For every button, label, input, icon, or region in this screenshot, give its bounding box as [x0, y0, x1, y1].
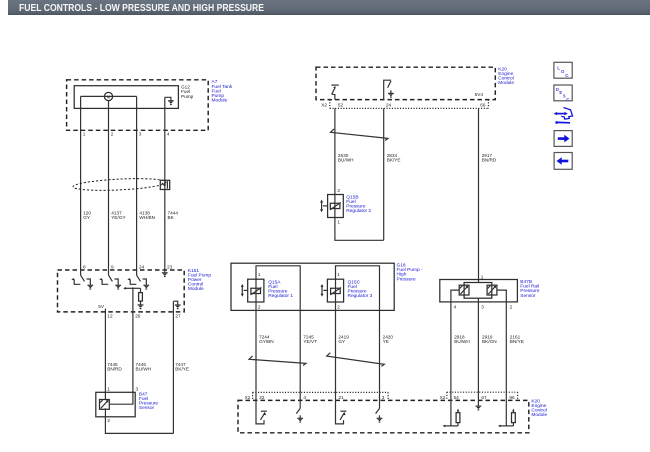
svg-text:BU/WH: BU/WH [454, 339, 470, 344]
svg-text:Regulator 2: Regulator 2 [346, 208, 371, 214]
svg-text:X2: X2 [440, 395, 446, 400]
svg-text:Pump: Pump [181, 94, 194, 99]
wire 120 GY [80, 96, 82, 270]
svg-text:BN/YE: BN/YE [510, 339, 524, 344]
header bar [8, 0, 650, 15]
ground (below resistor) [140, 301, 142, 305]
fuel pump power control module K151 dashed box [58, 270, 185, 312]
ground (inside fuel pump module) [165, 97, 171, 101]
solenoid Q15C [330, 288, 341, 295]
wire 4138 WH/BN [136, 96, 138, 270]
sensor element (left) [459, 285, 469, 295]
ground driver pin 3 [376, 400, 383, 422]
svg-text:26: 26 [135, 313, 141, 318]
svg-text:5V: 5V [98, 304, 105, 309]
svg-text:67: 67 [481, 395, 487, 400]
ground pin 23 [164, 270, 166, 273]
svg-text:YE: YE [383, 339, 389, 344]
svg-text:1: 1 [337, 219, 340, 224]
fuel rail pressure sensor B47B box [440, 280, 518, 302]
wire 3074 BK/YE [383, 108, 385, 240]
svg-text:YE/VT: YE/VT [303, 339, 317, 344]
svg-text:9: 9 [111, 264, 114, 269]
motor M fuel pump [104, 92, 112, 100]
ground driver pin 24 [384, 80, 391, 99]
svg-text:3: 3 [481, 304, 484, 309]
svg-text:2: 2 [337, 188, 340, 193]
wire pin 27 / 7447 BK/YE [172, 301, 174, 433]
driver (low-side) pin 24 [127, 270, 149, 289]
driver (low-side) pin 8 [71, 270, 93, 289]
svg-text:24: 24 [139, 264, 145, 269]
icon jump/goto glyph [554, 108, 573, 124]
solenoid Q15B [330, 203, 341, 210]
driver (high-side) pin 52 [332, 94, 335, 99]
twisted pair marker (7244/7245) [249, 356, 306, 366]
svg-text:GY/BN: GY/BN [259, 339, 274, 344]
driver (high-side) pin 22 [256, 400, 267, 424]
ground pin 67 [477, 392, 479, 406]
sense resistor pin 96 [498, 409, 515, 428]
icon LOC button [554, 62, 572, 78]
wire pin 12 / 7445 BN/RD to B47 pin 1 [104, 309, 106, 399]
wire 2917 BN/RD [478, 108, 480, 282]
svg-text:1: 1 [107, 387, 110, 392]
fuel pump G12 inner box [74, 86, 178, 109]
svg-text:1: 1 [481, 274, 484, 279]
svg-text:3: 3 [136, 387, 139, 392]
svg-text:Pressure: Pressure [397, 276, 417, 282]
driver (high-side) pin 21 [336, 400, 347, 424]
svg-text:C: C [566, 97, 569, 102]
svg-text:BU/WH: BU/WH [136, 367, 152, 372]
svg-text:GY: GY [83, 215, 91, 220]
fuel pump high pressure G18 box [231, 263, 394, 310]
fuel pressure regulator 3 Q15C box [327, 279, 343, 302]
harness ellipse [73, 177, 166, 192]
wire internal bus [81, 95, 137, 97]
svg-text:27: 27 [175, 313, 181, 318]
wire 7245 lower [299, 392, 301, 400]
svg-text:21: 21 [338, 395, 344, 400]
resistor (internal pull) [140, 288, 142, 292]
svg-text:23: 23 [167, 264, 173, 269]
wire Q15B pin 1 return [335, 195, 384, 241]
junction [132, 287, 134, 289]
variable arrow Q15B [320, 200, 323, 213]
svg-text:BK/YE: BK/YE [387, 158, 401, 163]
svg-text:96: 96 [509, 395, 515, 400]
wire 2530 BU/WH [334, 108, 336, 194]
wire pin 4 / 2918 BU/WH [451, 290, 460, 392]
svg-text:2: 2 [510, 304, 513, 309]
svg-text:4: 4 [167, 132, 170, 137]
svg-text:Sensor: Sensor [520, 293, 536, 299]
sensor element B47 [100, 400, 110, 410]
fuel tank fuel pump module A7 dashed box [67, 80, 209, 131]
svg-text:12: 12 [107, 313, 113, 318]
internal bridge rect [464, 283, 492, 299]
wire pin 2 return to 7447 [105, 408, 173, 433]
svg-text:2: 2 [258, 304, 261, 309]
wire 2420 lower [379, 392, 381, 400]
wire Q15C pin 2 / 2419 GY [335, 279, 337, 400]
svg-text:1: 1 [258, 272, 261, 277]
svg-text:GY: GY [338, 339, 346, 344]
svg-text:Module: Module [498, 80, 514, 86]
svg-text:3: 3 [139, 132, 142, 137]
svg-text:BK/YE: BK/YE [175, 367, 189, 372]
svg-text:BK/GN: BK/GN [482, 339, 497, 344]
fuel pressure sensor B47 box [96, 392, 135, 417]
svg-text:M: M [107, 94, 111, 99]
svg-text:BN/RD: BN/RD [107, 367, 122, 372]
svg-text:X2: X2 [245, 395, 251, 400]
wire 7444 BK [164, 97, 166, 270]
svg-text:3: 3 [382, 395, 385, 400]
svg-text:2: 2 [107, 418, 110, 423]
sense resistor pin 54 [443, 409, 460, 428]
wire pin 2 / 2161 BN/YE [497, 290, 507, 392]
twisted pair marker (top) [331, 129, 389, 141]
svg-text:4: 4 [303, 395, 306, 400]
wire sense branch [126, 287, 141, 289]
svg-text:24: 24 [386, 103, 392, 108]
variable arrow Q15C [321, 284, 324, 297]
svg-text:4: 4 [454, 304, 457, 309]
icon DESC button [554, 85, 572, 101]
svg-text:Module: Module [212, 98, 228, 104]
wire pin 96 into module [505, 392, 507, 426]
wire 4137 YE/GY [108, 101, 110, 270]
twisted pair marker (2419/2420) [327, 353, 385, 367]
svg-text:5V4: 5V4 [475, 92, 484, 97]
ground hook pin 27 [173, 301, 177, 305]
icon forward arrow button [554, 131, 572, 147]
driver (low-side) pin 9 [99, 270, 121, 289]
variable arrow Q15A [241, 284, 244, 297]
wire pin 26 / 7446 BU/WH to B47 pin 3 [109, 288, 133, 404]
svg-text:BU/WH: BU/WH [338, 158, 354, 163]
engine control module K20 dashed box (bottom) [238, 400, 529, 432]
svg-text:Regulator 1: Regulator 1 [268, 293, 293, 299]
wire Q15A pin 1 loop / 7245 YE/VT [256, 266, 300, 393]
solenoid Q15A [251, 288, 262, 295]
svg-text:66: 66 [480, 103, 486, 108]
wire pin 3 / 2919 BK/GN [477, 298, 479, 392]
svg-text:Module: Module [188, 286, 204, 292]
svg-text:WH/BN: WH/BN [139, 215, 155, 220]
engine control module K20 dashed box (top) [316, 67, 495, 99]
ground driver pin 4 [296, 400, 303, 422]
svg-text:X2: X2 [321, 103, 327, 108]
icon back arrow button [554, 153, 572, 170]
svg-text:Module: Module [531, 412, 547, 418]
svg-text:L: L [557, 65, 560, 70]
svg-text:54: 54 [454, 395, 460, 400]
svg-text:2: 2 [337, 304, 340, 309]
svg-text:22: 22 [259, 395, 265, 400]
fuel pressure regulator 2 Q15B box [328, 195, 344, 218]
splice / inline connector on wire 7444 [160, 180, 169, 189]
wire pin 54 into module [450, 392, 452, 426]
sense arrow [123, 287, 126, 290]
svg-text:1: 1 [83, 132, 86, 137]
wire Q15C pin 1 loop / 2420 YE [336, 266, 380, 393]
wire Q15A pin 2 / 7244 GY/BN [255, 279, 257, 400]
fuel pressure regulator 1 Q15A box [248, 279, 264, 302]
svg-text:Regulator 3: Regulator 3 [348, 293, 373, 299]
svg-text:8: 8 [83, 264, 86, 269]
svg-text:FUEL CONTROLS - LOW PRESSURE A: FUEL CONTROLS - LOW PRESSURE AND HIGH PR… [19, 3, 264, 14]
svg-text:BN/RD: BN/RD [482, 158, 497, 163]
svg-text:1: 1 [337, 272, 340, 277]
sensor element (right) [487, 285, 497, 295]
svg-text:52: 52 [338, 103, 344, 108]
svg-text:Sensor: Sensor [139, 405, 155, 411]
svg-text:BK: BK [168, 215, 175, 220]
svg-text:2: 2 [111, 132, 114, 137]
svg-text:YE/GY: YE/GY [111, 215, 126, 220]
